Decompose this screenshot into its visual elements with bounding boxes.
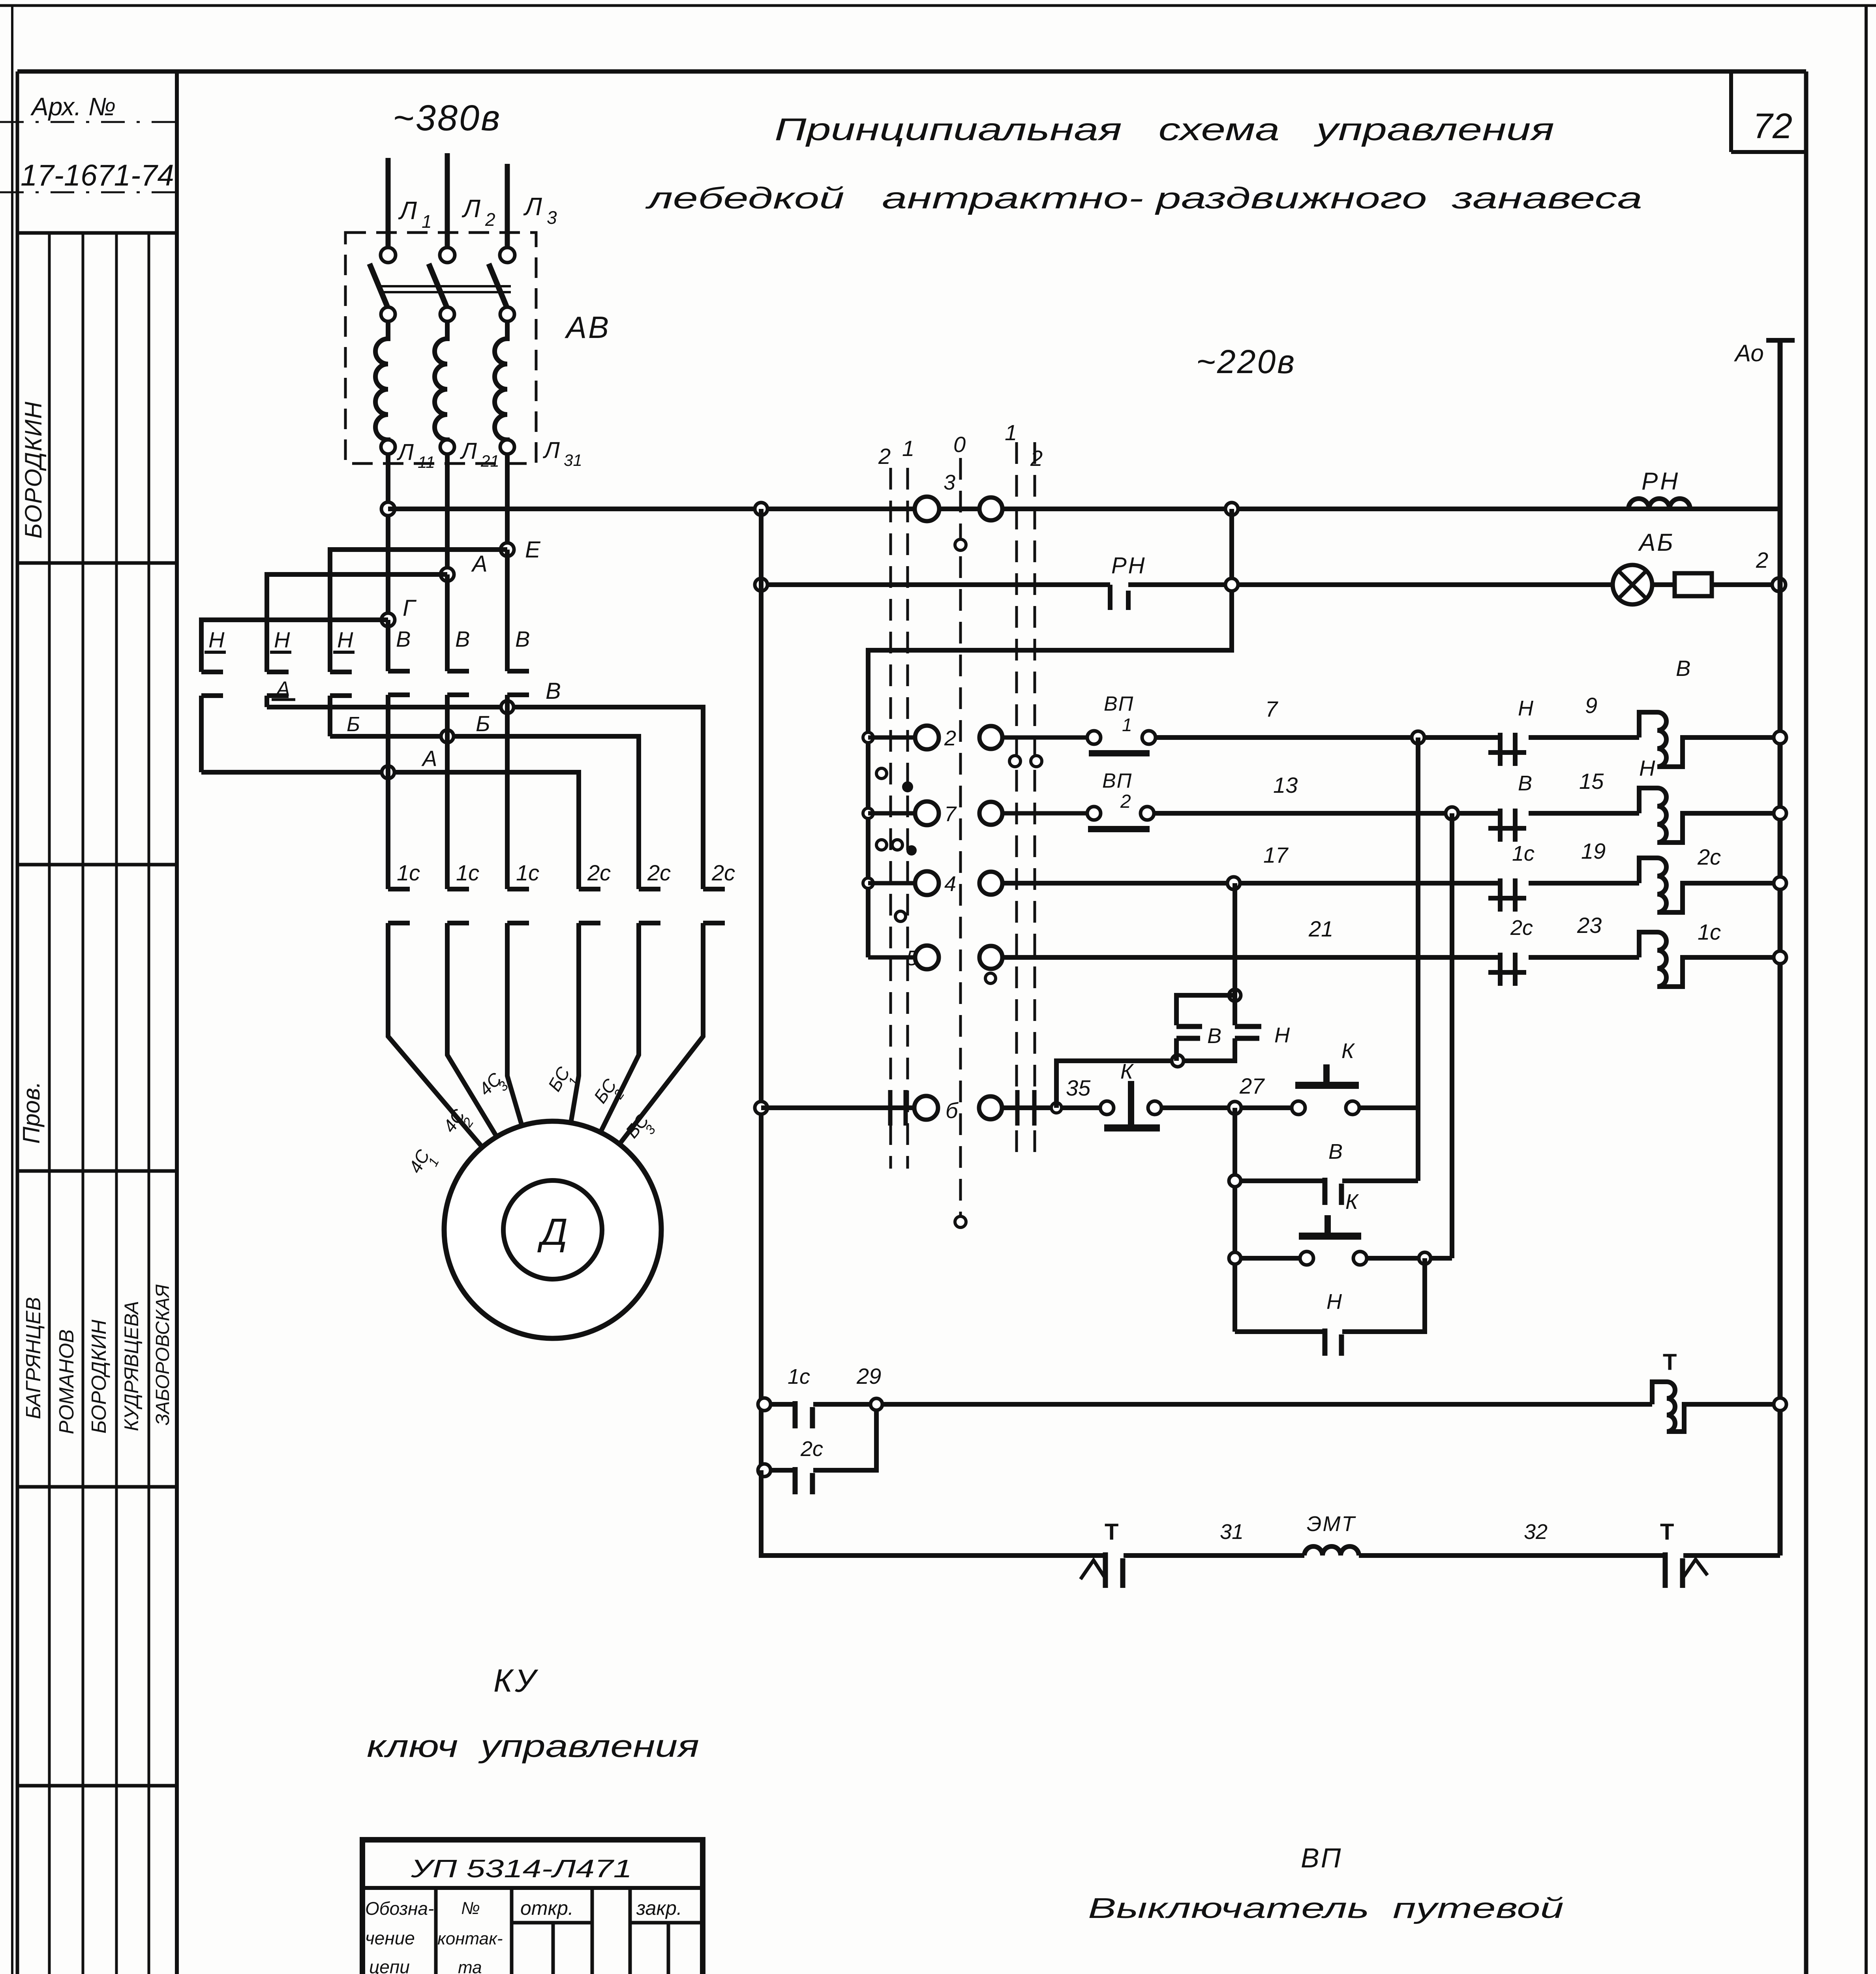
label Л11 bbox=[396, 439, 435, 471]
circuit breaker АВ dashed enclosure bbox=[345, 233, 536, 463]
svg-text:2: 2 bbox=[1756, 548, 1768, 572]
wire left bus bottom corner bbox=[761, 1470, 1104, 1556]
node К2 row bbox=[1229, 1252, 1241, 1264]
key КУ contact Б circles bbox=[914, 1096, 1002, 1123]
contact В1 (forward) bbox=[388, 620, 411, 695]
svg-text:БАГРЯНЦЕВ: БАГРЯНЦЕВ bbox=[22, 1297, 45, 1419]
svg-text:27: 27 bbox=[1239, 1073, 1265, 1098]
svg-text:Б: Б bbox=[347, 713, 360, 736]
svg-text:та: та bbox=[458, 1958, 482, 1974]
node row4 left stub bbox=[863, 878, 873, 888]
wire phase1 to contact 1с1 bbox=[386, 695, 390, 889]
svg-text:7: 7 bbox=[944, 802, 957, 826]
svg-text:Л: Л bbox=[396, 439, 414, 465]
wire 31 bbox=[1124, 1520, 1304, 1556]
wire 2с pole 3 to motor bbox=[619, 923, 703, 1144]
wire phase 3 below breaker bbox=[505, 454, 510, 550]
breaker pole 3 bottom terminal bbox=[500, 440, 514, 454]
svg-text:17-1671-74: 17-1671-74 bbox=[21, 159, 174, 192]
wire 1с pole 2 to motor bbox=[447, 923, 497, 1137]
node coil 2с to bus bbox=[1774, 877, 1786, 889]
contact 1с pole 2 bbox=[447, 860, 479, 923]
contact 2с (interlock) bbox=[1488, 916, 1533, 986]
wire 29 to Т coil bbox=[882, 1402, 1652, 1407]
svg-text:1с: 1с bbox=[456, 860, 479, 885]
electromagnet ЭМТ coil bbox=[1304, 1512, 1359, 1556]
node 29 bbox=[856, 1364, 882, 1410]
contact Н3 (reverse) bbox=[330, 627, 355, 696]
wire 23 bbox=[1529, 913, 1639, 957]
relay РН coil bbox=[1628, 468, 1690, 509]
svg-text:29: 29 bbox=[856, 1364, 881, 1389]
wire В row riser bbox=[1416, 737, 1420, 1181]
svg-text:23: 23 bbox=[1577, 913, 1602, 938]
key КУ contact 2 circles bbox=[915, 726, 1002, 750]
svg-text:Т: Т bbox=[1660, 1519, 1674, 1545]
svg-text:ВП: ВП bbox=[1104, 692, 1134, 715]
svg-text:Н: Н bbox=[1518, 696, 1534, 720]
label Л21 bbox=[460, 438, 499, 470]
wire 15 bbox=[1529, 769, 1639, 813]
right bus Ао bbox=[1734, 340, 1795, 1556]
svg-text:В: В bbox=[1328, 1140, 1343, 1163]
svg-text:Н: Н bbox=[337, 627, 353, 652]
svg-text:Е: Е bbox=[525, 537, 541, 563]
node coil В to bus bbox=[1774, 731, 1786, 744]
limit switch ВП2 bbox=[1087, 769, 1154, 829]
svg-text:2с: 2с bbox=[647, 860, 671, 885]
svg-text:2: 2 bbox=[1120, 791, 1131, 812]
contact Н1 (reverse) bbox=[201, 627, 226, 696]
node bus В junction phase3 bbox=[501, 678, 561, 713]
svg-text:2с: 2с bbox=[587, 860, 611, 885]
svg-text:ЭМТ: ЭМТ bbox=[1307, 1512, 1356, 1536]
breaker pole 3 thermal coil bbox=[495, 321, 507, 447]
wire row7 stub bbox=[868, 811, 915, 816]
lamp АБ bbox=[1613, 529, 1675, 604]
breaker pole 1 thermal coil bbox=[375, 321, 388, 447]
svg-text:РН: РН bbox=[1641, 468, 1680, 495]
node 2 on right bus bbox=[1756, 548, 1786, 591]
pushbutton К open bbox=[1292, 1039, 1359, 1115]
svg-text:11: 11 bbox=[418, 453, 435, 471]
contact 2с parallel bbox=[771, 1410, 876, 1494]
contact В seal-in row bbox=[1241, 1140, 1418, 1205]
svg-text:1с: 1с bbox=[397, 860, 420, 885]
table КУ frame bbox=[362, 1840, 703, 1974]
wire row2 stub bbox=[868, 736, 915, 740]
breaker pole 1 upper terminal bbox=[381, 248, 396, 263]
svg-text:Л: Л bbox=[523, 192, 542, 221]
svg-text:2: 2 bbox=[485, 209, 495, 230]
node left bus Т row bbox=[758, 1398, 771, 1411]
pushbutton К close bbox=[1299, 1190, 1367, 1265]
node row2 left stub bbox=[863, 732, 873, 743]
svg-text:БОРОДКИН: БОРОДКИН bbox=[88, 1319, 111, 1434]
wire А to contact Н2 bbox=[267, 574, 447, 651]
wire phase 1 below breaker bbox=[386, 454, 390, 620]
node stub to hold contacts bbox=[1051, 1103, 1062, 1113]
key КУ cam marker circles bbox=[876, 539, 1042, 1227]
contact РН self-hold bbox=[1110, 553, 1146, 610]
svg-text:чение: чение bbox=[365, 1928, 415, 1948]
svg-text:В: В bbox=[1207, 1024, 1221, 1048]
border outer top bbox=[0, 4, 1876, 7]
wire 7 bbox=[1156, 696, 1418, 737]
wire 2с pole 2 to motor bbox=[600, 923, 639, 1132]
svg-text:В: В bbox=[546, 678, 561, 704]
label Л3 bbox=[523, 192, 557, 228]
contact 2с pole 2 bbox=[639, 860, 671, 923]
key КУ contact 3 circles bbox=[915, 471, 1002, 521]
breaker pole 1 bottom terminal bbox=[381, 440, 395, 454]
pushbutton К stop (35) bbox=[1066, 1060, 1161, 1128]
sidebar arch number cell bbox=[0, 92, 178, 192]
svg-text:4: 4 bbox=[944, 872, 956, 896]
contact 2с pole 1 bbox=[579, 860, 611, 923]
resistor АБ series bbox=[1675, 573, 1712, 596]
key КУ row Б tick contacts left bbox=[890, 1090, 906, 1126]
svg-text:Н: Н bbox=[1326, 1290, 1342, 1313]
svg-text:Н: Н bbox=[1639, 756, 1655, 781]
contact Н2 (reverse) bbox=[267, 627, 291, 696]
svg-text:Ао: Ао bbox=[1734, 340, 1764, 366]
svg-text:В: В bbox=[515, 627, 530, 651]
svg-text:В: В bbox=[396, 627, 411, 651]
svg-text:ключ управления: ключ управления bbox=[367, 1728, 699, 1764]
node Т coil to bus bbox=[1774, 1398, 1786, 1411]
contactor coil 1с bbox=[1639, 919, 1780, 987]
table КУ column headers bbox=[365, 1897, 682, 1974]
bus В crossover wire bbox=[267, 707, 703, 889]
svg-text:№: № bbox=[461, 1899, 480, 1918]
node wire7 drop bbox=[1412, 731, 1424, 744]
svg-text:1с: 1с bbox=[516, 860, 539, 885]
svg-text:Обозна-: Обозна- bbox=[365, 1898, 434, 1919]
wire 1с pole 1 to motor bbox=[388, 923, 482, 1147]
svg-text:Б: Б bbox=[476, 711, 490, 736]
svg-text:АВ: АВ bbox=[565, 310, 610, 345]
node К2 right bbox=[1419, 1252, 1431, 1264]
key КУ switch position dash lines bbox=[891, 442, 1035, 1222]
svg-text:2с: 2с bbox=[1510, 916, 1533, 940]
svg-text:б: б bbox=[946, 1098, 959, 1123]
wire 19 bbox=[1529, 839, 1639, 883]
svg-text:15: 15 bbox=[1579, 769, 1604, 794]
frame inner bbox=[17, 69, 1806, 74]
wire 13 bbox=[1154, 773, 1452, 813]
svg-text:А: А bbox=[421, 746, 437, 771]
wire row2 to ВП1 bbox=[1003, 736, 1087, 740]
svg-text:В: В bbox=[1518, 771, 1532, 795]
wire Н2 lower to bus В bbox=[265, 696, 269, 707]
wire 1с pole 3 to motor bbox=[507, 923, 522, 1126]
svg-text:2с: 2с bbox=[1697, 844, 1721, 869]
wire 35 to 27 bbox=[1161, 1105, 1292, 1110]
wire row Б left bbox=[761, 1105, 915, 1110]
contact Н hold (parallel) bbox=[1235, 1023, 1290, 1047]
svg-text:Т: Т bbox=[1663, 1349, 1677, 1375]
wire 17 node to hold top bbox=[1233, 883, 1237, 995]
wire hold top connections bbox=[1176, 995, 1235, 1025]
wire Н1 lower to bus А bbox=[199, 696, 204, 772]
left control bus bbox=[759, 509, 764, 1556]
svg-text:35: 35 bbox=[1066, 1075, 1091, 1100]
contact 1с pole 1 bbox=[388, 860, 420, 923]
svg-text:1: 1 bbox=[902, 436, 914, 461]
contact В hold (parallel) bbox=[1176, 1024, 1221, 1048]
wire 2с pole 1 to motor bbox=[571, 923, 579, 1123]
contact В2 (forward) bbox=[447, 574, 470, 695]
bus А crossover wire bbox=[201, 772, 579, 889]
svg-text:А: А bbox=[471, 551, 488, 577]
breaker pole 3 upper terminal bbox=[500, 248, 515, 263]
svg-text:А: А bbox=[275, 677, 290, 700]
svg-text:Н: Н bbox=[208, 627, 225, 652]
svg-text:К: К bbox=[1345, 1190, 1359, 1214]
wire 32 bbox=[1359, 1520, 1664, 1556]
wire row5 corner bbox=[868, 955, 920, 960]
svg-text:21: 21 bbox=[480, 452, 499, 470]
svg-text:31: 31 bbox=[564, 451, 582, 469]
svg-text:В: В bbox=[1676, 656, 1690, 681]
node В row bbox=[1229, 1175, 1241, 1187]
contact В (interlock) bbox=[1488, 771, 1532, 842]
node 27 bbox=[1229, 1073, 1265, 1114]
node left bus 2с row bbox=[758, 1464, 771, 1477]
wire phase2 to contact 1с2 bbox=[445, 695, 450, 889]
svg-text:1: 1 bbox=[1122, 715, 1132, 735]
svg-text:ВП: ВП bbox=[1301, 1843, 1342, 1873]
sidebar names column bbox=[22, 1284, 173, 1434]
wire К1 to riser bbox=[1360, 1105, 1418, 1110]
wire phase 2 below breaker bbox=[445, 454, 450, 574]
contact Н (interlock) bbox=[1488, 696, 1534, 766]
node hold bottom bbox=[1172, 1055, 1184, 1067]
wire К2 to riser 13 bbox=[1431, 1256, 1452, 1261]
svg-text:~380в: ~380в bbox=[393, 98, 501, 138]
svg-text:Арх. №: Арх. № bbox=[30, 92, 116, 121]
svg-text:Принципиальная схема управ: Принципиальная схема управления bbox=[775, 112, 1554, 147]
svg-text:3: 3 bbox=[944, 471, 955, 494]
svg-text:КУДРЯВЦЕВА: КУДРЯВЦЕВА bbox=[120, 1301, 143, 1431]
svg-text:9: 9 bbox=[1585, 693, 1597, 718]
svg-text:цепи: цепи bbox=[369, 1957, 410, 1974]
svg-text:ЗАБОРОВСКАЯ: ЗАБОРОВСКАЯ bbox=[152, 1284, 173, 1425]
node wire13 drop bbox=[1446, 807, 1458, 820]
node А upper bbox=[441, 551, 488, 581]
svg-text:Пров.: Пров. bbox=[18, 1081, 45, 1144]
contact Т time-delay right bbox=[1660, 1519, 1707, 1588]
key КУ contact 7 circles bbox=[915, 801, 1002, 826]
wire riser 13 bbox=[1450, 813, 1454, 1258]
node hold top bbox=[1229, 989, 1241, 1001]
svg-text:1с: 1с bbox=[1698, 919, 1721, 944]
svg-text:Выключатель путевой: Выключатель путевой bbox=[1088, 1893, 1564, 1924]
contact 1с on Т row bbox=[771, 1365, 870, 1428]
bus Б crossover wire bbox=[330, 736, 639, 889]
svg-text:2: 2 bbox=[1030, 446, 1043, 471]
node Г bbox=[381, 595, 417, 627]
motor terminal labels bbox=[405, 1063, 658, 1177]
svg-text:РОМАНОВ: РОМАНОВ bbox=[55, 1329, 78, 1434]
table КУ grid lines bbox=[362, 1888, 703, 1974]
svg-text:Г: Г bbox=[403, 595, 417, 621]
svg-text:лебедкой антрактно- раздвижн: лебедкой антрактно- раздвижного занавеса bbox=[645, 182, 1642, 215]
wire phase feeder Л2 bbox=[445, 153, 450, 255]
contact Т time-delay left bbox=[1081, 1519, 1123, 1588]
svg-text:3: 3 bbox=[547, 207, 557, 228]
svg-text:5: 5 bbox=[906, 946, 918, 970]
wire Г to contact Н1 bbox=[201, 620, 388, 651]
svg-text:~220в: ~220в bbox=[1196, 343, 1296, 380]
svg-text:К: К bbox=[1341, 1039, 1355, 1063]
svg-text:1с: 1с bbox=[1512, 842, 1535, 865]
svg-text:Л: Л bbox=[460, 438, 477, 464]
border outer right bbox=[1865, 6, 1868, 1974]
svg-text:контак-: контак- bbox=[437, 1929, 503, 1948]
contact В3 (forward) bbox=[507, 550, 530, 695]
wire 21 bbox=[1003, 916, 1500, 957]
svg-text:Д: Д bbox=[537, 1211, 568, 1253]
sidebar row separators bbox=[17, 233, 177, 1974]
svg-text:КУ: КУ bbox=[493, 1663, 538, 1699]
node left bus lamp row bbox=[755, 578, 767, 591]
breaker pole 1 blade bbox=[370, 264, 389, 310]
node bus А junction phase1 bbox=[382, 746, 437, 779]
breaker trip bar bbox=[381, 286, 511, 292]
node lamp row junction bbox=[1225, 578, 1238, 591]
node control feed tap bbox=[381, 502, 395, 516]
svg-text:13: 13 bbox=[1273, 773, 1298, 797]
svg-text:2с: 2с bbox=[711, 860, 735, 885]
contact 1с (interlock) bbox=[1488, 842, 1535, 912]
svg-text:закр.: закр. bbox=[636, 1897, 682, 1919]
svg-text:АБ: АБ bbox=[1638, 529, 1675, 556]
wire row7 to ВП2 bbox=[1003, 811, 1087, 816]
svg-text:0: 0 bbox=[953, 432, 966, 457]
svg-text:1с: 1с bbox=[788, 1365, 810, 1389]
motor Д bbox=[444, 1121, 661, 1338]
node Е bbox=[501, 537, 541, 563]
svg-text:откр.: откр. bbox=[520, 1897, 574, 1919]
wire 27 down bbox=[1233, 1108, 1237, 1332]
wire Е to contact Н3 bbox=[330, 550, 507, 651]
wire ЭМТ row right corner bbox=[1683, 1553, 1780, 1558]
svg-text:Н: Н bbox=[274, 627, 290, 652]
breaker pole 3 lower terminal bbox=[500, 307, 514, 321]
node left bus top bbox=[755, 503, 767, 515]
wire phase feeder Л3 bbox=[505, 164, 510, 255]
svg-text:2: 2 bbox=[944, 726, 956, 750]
svg-text:Т: Т bbox=[1105, 1519, 1118, 1545]
breaker pole 1 lower terminal bbox=[381, 307, 395, 321]
key КУ contact 4 circles bbox=[915, 871, 1002, 896]
wire phase feeder Л1 bbox=[386, 158, 391, 255]
svg-text:21: 21 bbox=[1308, 916, 1333, 941]
svg-text:17: 17 bbox=[1263, 843, 1289, 867]
label Л1 bbox=[398, 196, 432, 232]
svg-text:1: 1 bbox=[422, 211, 432, 232]
wire Н3 lower to bus Б bbox=[328, 696, 332, 736]
breaker pole 2 upper terminal bbox=[440, 248, 455, 263]
node wire17 drop bbox=[1227, 877, 1240, 889]
breaker pole 2 lower terminal bbox=[440, 307, 454, 321]
svg-text:19: 19 bbox=[1581, 839, 1606, 863]
label Л2 bbox=[461, 194, 495, 230]
contactor coil Н bbox=[1639, 756, 1780, 843]
svg-text:7: 7 bbox=[1265, 696, 1278, 721]
node left bus row Б bbox=[755, 1101, 767, 1114]
svg-text:Л: Л bbox=[542, 437, 560, 463]
svg-text:Л: Л bbox=[398, 196, 417, 225]
wire feed drop to rows bbox=[868, 509, 1232, 957]
wire hold branch up bbox=[1056, 1061, 1176, 1108]
node row7 left stub bbox=[863, 808, 873, 818]
wire row Б middle bbox=[1002, 1105, 1100, 1110]
contact 2с pole 3 bbox=[703, 860, 735, 923]
svg-text:32: 32 bbox=[1524, 1520, 1548, 1544]
limit switch ВП1 bbox=[1087, 692, 1156, 753]
sheet number box 72 bbox=[1731, 71, 1806, 152]
contactor coil 2с bbox=[1639, 844, 1780, 912]
svg-text:72: 72 bbox=[1753, 107, 1792, 146]
breaker pole 3 blade bbox=[489, 264, 508, 310]
contactor coil В bbox=[1639, 656, 1780, 767]
svg-text:1: 1 bbox=[1005, 420, 1017, 445]
key КУ row Б tick contacts right bbox=[1017, 1090, 1034, 1126]
node coil Н to bus bbox=[1774, 807, 1786, 820]
wire 9 bbox=[1529, 693, 1639, 737]
contact 1с pole 3 bbox=[507, 860, 539, 923]
node bus Б junction phase2 bbox=[441, 711, 490, 743]
wire hold bottoms bbox=[1174, 1038, 1179, 1061]
node row3 drop junction bbox=[1225, 503, 1238, 515]
wire phase3 to contact 1с3 bbox=[505, 695, 510, 889]
border outer left bbox=[11, 6, 13, 1974]
key КУ position labels 2 1 0 1 2 bbox=[878, 420, 1043, 471]
breaker pole 2 bottom terminal bbox=[440, 440, 454, 454]
svg-text:Н: Н bbox=[1274, 1023, 1290, 1047]
key КУ contact 5 circles bbox=[906, 946, 1002, 970]
svg-text:2: 2 bbox=[878, 444, 891, 469]
wire row4 stub bbox=[868, 881, 915, 886]
svg-text:Л: Л bbox=[461, 194, 480, 223]
breaker pole 2 thermal coil bbox=[435, 321, 447, 447]
svg-text:ВП: ВП bbox=[1102, 769, 1132, 792]
wire control feed row 3 bbox=[388, 507, 915, 511]
table КУ header УП 5314-Л471 bbox=[362, 1854, 703, 1888]
sidebar column lines bbox=[49, 71, 177, 1974]
wire 17 bbox=[1003, 843, 1500, 883]
label Л31 bbox=[542, 437, 582, 469]
svg-text:2с: 2с bbox=[800, 1437, 823, 1461]
relay Т coil bbox=[1652, 1349, 1780, 1432]
contact Н seal-in row bbox=[1235, 1258, 1425, 1356]
svg-text:31: 31 bbox=[1220, 1520, 1244, 1544]
svg-text:БОРОДКИН: БОРОДКИН bbox=[20, 401, 47, 539]
svg-text:В: В bbox=[455, 627, 470, 651]
svg-text:УП 5314-Л471: УП 5314-Л471 bbox=[411, 1854, 632, 1883]
breaker pole 2 blade bbox=[429, 264, 448, 310]
node coil 1с to bus bbox=[1774, 951, 1786, 964]
wire row РН (lamp row) bbox=[761, 582, 1110, 587]
svg-text:РН: РН bbox=[1111, 553, 1146, 578]
